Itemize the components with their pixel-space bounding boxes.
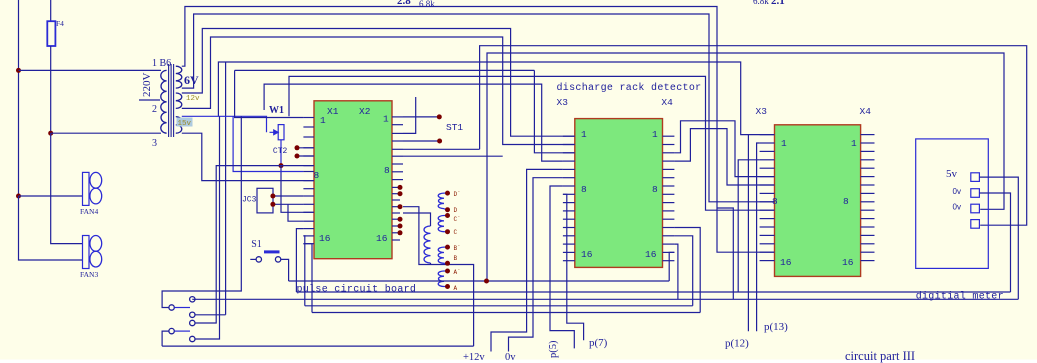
- transformer B6 secondary 12V winding: [176, 93, 182, 108]
- svg-text:16: 16: [581, 249, 593, 260]
- wire riser x738 to U3: [738, 160, 759, 292]
- op-amp U1 pulse board IC X1 X2: [314, 101, 392, 259]
- wire to transformer pin 1: [19, 69, 162, 71]
- terminal D node: [445, 207, 450, 212]
- svg-text:220V: 220V: [141, 73, 153, 98]
- wire p12 drop from U3 pin1 net: [747, 135, 749, 332]
- svg-text:B: B: [454, 255, 458, 262]
- U2 right pin stubs: [663, 135, 675, 137]
- wire net tap1 riser to top bus then IC U3: [182, 7, 775, 253]
- svg-text:pulse circuit board: pulse circuit board: [297, 284, 417, 296]
- junction node y281: [484, 279, 489, 284]
- svg-text:8: 8: [652, 184, 658, 195]
- pin 2 stub of primary: [139, 99, 160, 101]
- svg-text:X4: X4: [661, 97, 673, 108]
- meter terminal square t4: [971, 220, 980, 229]
- svg-text:X3: X3: [557, 97, 569, 108]
- wire bottom bus y299: [192, 298, 1018, 300]
- wire W1 bottom selected net: [280, 140, 282, 166]
- wire meter t1 loop: [979, 177, 1018, 299]
- svg-text:CT2: CT2: [273, 147, 288, 156]
- wire net tap6 15V bottom to U1 pin row: [182, 133, 314, 180]
- wire U1 pin row 244 down to bus y312: [303, 244, 312, 313]
- svg-text:A`: A`: [454, 269, 461, 276]
- svg-text:5v: 5v: [946, 168, 958, 180]
- wire JC3 contact a to U1: [273, 195, 303, 197]
- transformer B6 core: [168, 64, 170, 137]
- wire to transformer pin 3: [51, 132, 161, 134]
- digital meter M1 box: [916, 139, 989, 269]
- junction node W1 bottom: [279, 163, 284, 168]
- svg-text:+12v: +12v: [463, 352, 485, 363]
- svg-text:16: 16: [842, 257, 854, 268]
- wire +12v feed: [491, 169, 563, 351]
- wire bottom bus y281: [289, 280, 670, 282]
- wire meter t2 loop: [979, 193, 1010, 292]
- wire net tap2 riser to top bus then IC U3 pin 8: [182, 14, 775, 202]
- fan FAN4: [83, 172, 90, 205]
- svg-text:C`: C`: [454, 216, 461, 223]
- wire contact a riser to selected net: [162, 116, 241, 307]
- svg-text:FAN3: FAN3: [80, 270, 98, 279]
- junction node FAN4 feed: [16, 194, 21, 199]
- svg-text:16: 16: [780, 257, 792, 268]
- fuse F4: [50, 0, 52, 21]
- wire p5 feed: [550, 186, 574, 348]
- wire U1 pin row 228 down to bus y292: [296, 229, 303, 292]
- terminal A node: [445, 284, 450, 289]
- svg-text:1: 1: [851, 138, 857, 149]
- svg-text:F4: F4: [56, 19, 64, 28]
- junction node pin3 net: [48, 131, 53, 136]
- svg-text:1: 1: [383, 114, 389, 125]
- contact K1 c: [190, 312, 195, 317]
- svg-text:6V: 6V: [184, 73, 199, 87]
- svg-text:JC3: JC3: [242, 196, 257, 205]
- svg-text:circuit part III: circuit part III: [845, 349, 915, 363]
- svg-text:D`: D`: [454, 191, 461, 198]
- pushbutton S1: [256, 257, 261, 262]
- contact K2 b: [190, 336, 195, 341]
- contact K1 b: [190, 297, 195, 302]
- wire net tap3 riser to IC U2 pin 1: [182, 29, 575, 137]
- contact K1 d: [190, 320, 195, 325]
- wire net tap5 riser 15V top bus to U3 pin 1: [218, 62, 774, 135]
- junction node CT2 b: [295, 154, 300, 159]
- wire S1 left stub: [250, 258, 256, 260]
- wire bottom return y346: [162, 345, 474, 347]
- wire U2 out b to U3: [674, 129, 774, 185]
- wire contact K2b riser: [195, 116, 219, 339]
- fan FAN3: [83, 236, 90, 269]
- svg-text:W1: W1: [269, 105, 284, 116]
- svg-text:1: 1: [320, 115, 326, 126]
- wire CT2 pin b: [297, 155, 314, 157]
- wire left rail down to FAN3: [19, 196, 83, 260]
- svg-text:8: 8: [581, 184, 587, 195]
- wire bottom bus y292: [296, 291, 1010, 293]
- inductor L3 secondary C: [438, 216, 444, 232]
- U1 left pin stubs: [303, 117, 314, 119]
- svg-text:A: A: [454, 285, 458, 292]
- inductor L4 secondary B: [438, 247, 444, 263]
- label 15v selected: [177, 118, 193, 127]
- svg-text:0v: 0v: [953, 203, 961, 212]
- svg-text:15v: 15v: [178, 120, 192, 128]
- svg-text:0v: 0v: [505, 352, 516, 363]
- junction node JC3 a: [270, 194, 275, 199]
- wire top bus lower right to meter t3: [487, 53, 1004, 281]
- svg-text:8: 8: [384, 165, 390, 176]
- svg-text:8: 8: [843, 196, 849, 207]
- svg-text:6.8k: 6.8k: [419, 0, 435, 9]
- wire U1 to ST1 b: [403, 140, 440, 142]
- wire U2 out a to U3: [674, 121, 774, 177]
- wire U1 right row 149 to top bus drop: [403, 148, 480, 150]
- terminal A' node: [445, 269, 450, 274]
- contact K2 a: [169, 328, 174, 333]
- terminal node ST1 a: [437, 114, 442, 119]
- svg-text:p(7): p(7): [589, 337, 608, 349]
- svg-text:FAN4: FAN4: [80, 207, 98, 216]
- svg-text:16: 16: [376, 233, 388, 244]
- wire net tap4 riser to IC U2 pin 2: [182, 37, 575, 145]
- inductor L5 secondary A: [438, 271, 444, 287]
- svg-text:3: 3: [152, 138, 157, 149]
- svg-text:p(13): p(13): [764, 321, 788, 333]
- U1 right pin stubs lower with terminals: [392, 186, 400, 188]
- wire bottom bus y306: [305, 305, 693, 307]
- relay JC3: [257, 188, 273, 213]
- wire U2 out c down to bus y281: [669, 252, 674, 281]
- wire U1 pin row 236 down to bus y306: [303, 236, 304, 306]
- svg-text:1 B6: 1 B6: [152, 58, 171, 69]
- terminal C' node: [445, 213, 450, 218]
- svg-text:0v: 0v: [953, 187, 961, 196]
- svg-text:C: C: [454, 229, 458, 236]
- svg-text:X2: X2: [359, 106, 371, 117]
- svg-text:p(12): p(12): [725, 338, 749, 350]
- svg-text:B`: B`: [454, 245, 461, 252]
- wire U2 out d down to bus y299: [674, 244, 678, 299]
- svg-text:2.1: 2.1: [771, 0, 785, 7]
- terminal C node: [445, 229, 450, 234]
- wire U1 pin row 221 hook: [288, 204, 303, 221]
- wire bus y70 across to U2: [235, 69, 535, 71]
- U3 right pin stubs: [861, 134, 875, 136]
- wire top bus upper right to meter t4: [480, 46, 1027, 226]
- wire selected branch to U1 pin row 171: [233, 116, 303, 171]
- wire bus y70 down to U1 pin 2: [235, 70, 304, 117]
- U1 right pin stubs upper: [392, 116, 403, 118]
- wire JC3 contact b to U1: [273, 203, 303, 205]
- svg-text:D: D: [454, 207, 458, 214]
- wire L1 loop: [403, 207, 474, 346]
- svg-text:2: 2: [152, 104, 157, 115]
- wire 0v feed: [509, 178, 563, 352]
- U2 left pin stubs: [563, 135, 575, 137]
- wire U1 to ST1 a: [403, 116, 439, 118]
- wire to FAN4: [19, 195, 83, 197]
- wire fuse rail down to FAN3: [51, 133, 83, 243]
- svg-text:discharge rack detector: discharge rack detector: [557, 82, 702, 94]
- svg-text:X3: X3: [756, 106, 768, 117]
- svg-text:S1: S1: [251, 239, 262, 250]
- terminal D' node: [445, 191, 450, 196]
- wire W1 bottom net to U1 pin row 212: [281, 166, 314, 213]
- svg-text:X1: X1: [327, 106, 339, 117]
- inductor L2 secondary D: [438, 193, 444, 209]
- svg-text:2.8: 2.8: [397, 0, 411, 7]
- U3 left pin stubs: [760, 134, 775, 136]
- terminal dots U1 right lower: [398, 185, 403, 190]
- svg-text:1: 1: [581, 129, 587, 140]
- terminal B node: [445, 261, 450, 266]
- potentiometer W1: [278, 125, 284, 140]
- transformer B6 secondary 15V winding: [176, 117, 182, 134]
- svg-text:12v: 12v: [186, 95, 200, 103]
- wire contact d riser to U1 row 165: [195, 166, 313, 323]
- wire p7 feed: [563, 194, 584, 340]
- contact K1 a: [169, 305, 174, 310]
- op-amp U3 IC X3 X4: [775, 125, 861, 277]
- wire U2 out e down to bus y306: [674, 236, 692, 306]
- wire CT2 pin a: [297, 147, 314, 149]
- wire branch bus y62 down to contact c: [225, 62, 227, 315]
- terminal node ST1 b: [437, 139, 442, 144]
- junction node JC3 b: [270, 202, 275, 207]
- wire U1 pin row 133 riser: [403, 97, 416, 133]
- svg-text:ST1: ST1: [446, 122, 463, 133]
- wire left vertical rail from top: [18, 0, 20, 196]
- wire bottom bus y312: [312, 312, 700, 314]
- wire 15V selected net to W1 wiper: [182, 116, 267, 132]
- transformer B6 secondary 6V winding: [176, 66, 182, 88]
- wire p13 drop from U3 pin2 net: [757, 143, 760, 331]
- transformer B6 primary winding: [161, 70, 167, 133]
- svg-text:16: 16: [319, 233, 331, 244]
- op-amp U2 detector IC X3 X4: [575, 119, 663, 268]
- wire inner loop 2 over U1 to U2: [264, 84, 563, 161]
- wire contact K2a down to y346: [162, 331, 169, 346]
- junction node at transformer primary pin 1: [16, 68, 21, 73]
- svg-text:1: 1: [781, 138, 787, 149]
- meter terminal square t2: [971, 189, 980, 198]
- meter terminal square t3: [971, 204, 980, 213]
- wire U2 out f down to bus y312: [674, 228, 700, 313]
- meter terminal square t1: [971, 173, 980, 182]
- wire contact c to riser: [195, 314, 226, 316]
- inductor L1 primary coil: [424, 226, 431, 263]
- junction node CT2 a: [295, 145, 300, 150]
- wire riser x733: [717, 208, 734, 299]
- svg-text:1: 1: [652, 129, 658, 140]
- svg-text:8: 8: [314, 170, 320, 181]
- terminal B' node: [445, 245, 450, 250]
- wire S1 right to bottom bus y281: [281, 259, 289, 281]
- wire U1 right row 156 east run: [403, 155, 503, 157]
- svg-text:p(5): p(5): [548, 340, 559, 358]
- svg-text:6.8k: 6.8k: [753, 0, 769, 6]
- svg-text:X4: X4: [860, 106, 872, 117]
- wire inner loop over U1 to U3: [289, 76, 775, 210]
- svg-text:16: 16: [645, 249, 657, 260]
